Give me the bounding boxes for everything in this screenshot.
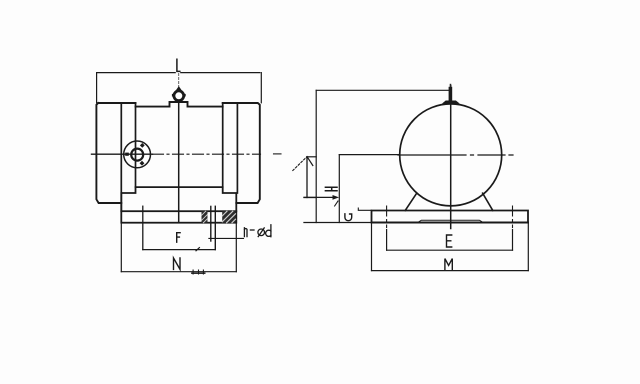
left end cover outline: [96, 103, 135, 203]
right foot gusset: [483, 193, 493, 210]
total height dimension line: [315, 90, 317, 222]
dimension L line: [97, 72, 260, 74]
cable gland left nub: [125, 153, 129, 156]
bolt hole left edge: [210, 206, 212, 241]
dimension N line: [121, 271, 236, 273]
bolt hole hatch left block: [202, 211, 208, 223]
centerline above eyebolt: [178, 74, 180, 88]
bolt centerline right: [512, 206, 514, 228]
G extension line (base top): [358, 208, 371, 210]
force direction diagonal centerline: [293, 157, 307, 171]
H leader arrow: [304, 196, 333, 198]
right cover ring line: [222, 103, 224, 187]
ground line: [304, 222, 372, 224]
vertical centerline right view: [450, 86, 452, 229]
dimension F label: [177, 233, 180, 243]
housing top edge with eyebolt boss: [136, 102, 223, 107]
eyebolt base trapezoid: [442, 101, 460, 104]
dimension N left extension: [120, 223, 122, 272]
dimension E label: [447, 235, 452, 247]
base plate underside recess: [418, 220, 482, 222]
force direction arrow connector: [304, 197, 316, 199]
right end cover outline: [223, 103, 260, 203]
dimension M left extension: [371, 223, 373, 271]
cable gland inner ring: [131, 149, 143, 161]
label G (rotated): [345, 214, 352, 221]
motor circle: [400, 104, 502, 206]
dimension L left extension: [96, 73, 98, 103]
vertical centerline left view: [178, 101, 180, 223]
dimension E right extension: [512, 230, 514, 251]
dimension L label: [177, 59, 180, 71]
dimension M line: [372, 270, 529, 272]
base plate outline: [121, 211, 236, 223]
foot bracket outline: [121, 187, 236, 211]
dimension M label: [445, 259, 452, 270]
horizontal centerline left view: [92, 153, 153, 155]
cable gland outer circle: [124, 141, 151, 168]
base plate (end view): [372, 211, 529, 223]
dimension F left extension: [142, 206, 144, 249]
eyebolt stem (end view): [449, 87, 453, 102]
dimension F line: [143, 249, 216, 251]
left cover joint line: [120, 103, 122, 211]
left foot gusset: [405, 193, 416, 210]
horizontal centerline right view: [398, 154, 513, 156]
eyebolt-top extension line: [316, 89, 450, 91]
bolt hole hatch right block: [222, 211, 235, 223]
cable gland screw SE: [140, 161, 145, 166]
force direction arrow top connector: [307, 156, 316, 158]
bolt hole right edge: [214, 206, 216, 249]
label H (rotated): [325, 187, 337, 191]
center height H extension to circle: [339, 154, 398, 156]
n-ød leader line: [209, 237, 244, 239]
cable gland screw NE: [140, 143, 145, 148]
bolt centerline left: [386, 206, 388, 228]
center height H dimension line: [338, 155, 340, 223]
dimension M right extension: [527, 223, 529, 271]
dimension N right extension: [235, 223, 237, 272]
dimension N ticks: [193, 270, 203, 274]
dimension L right extension: [260, 73, 262, 103]
eyebolt ring: [172, 87, 186, 101]
dimension E line: [387, 249, 513, 251]
dimension E left extension: [386, 230, 388, 251]
force direction arrow vertical: [306, 157, 308, 198]
right cover joint line: [236, 103, 238, 193]
n-ød label: [244, 225, 271, 237]
dimension N label: [174, 258, 181, 269]
force direction arrowhead: [307, 157, 313, 166]
dimension F tick: [196, 248, 199, 251]
left cover ring line: [135, 103, 137, 187]
